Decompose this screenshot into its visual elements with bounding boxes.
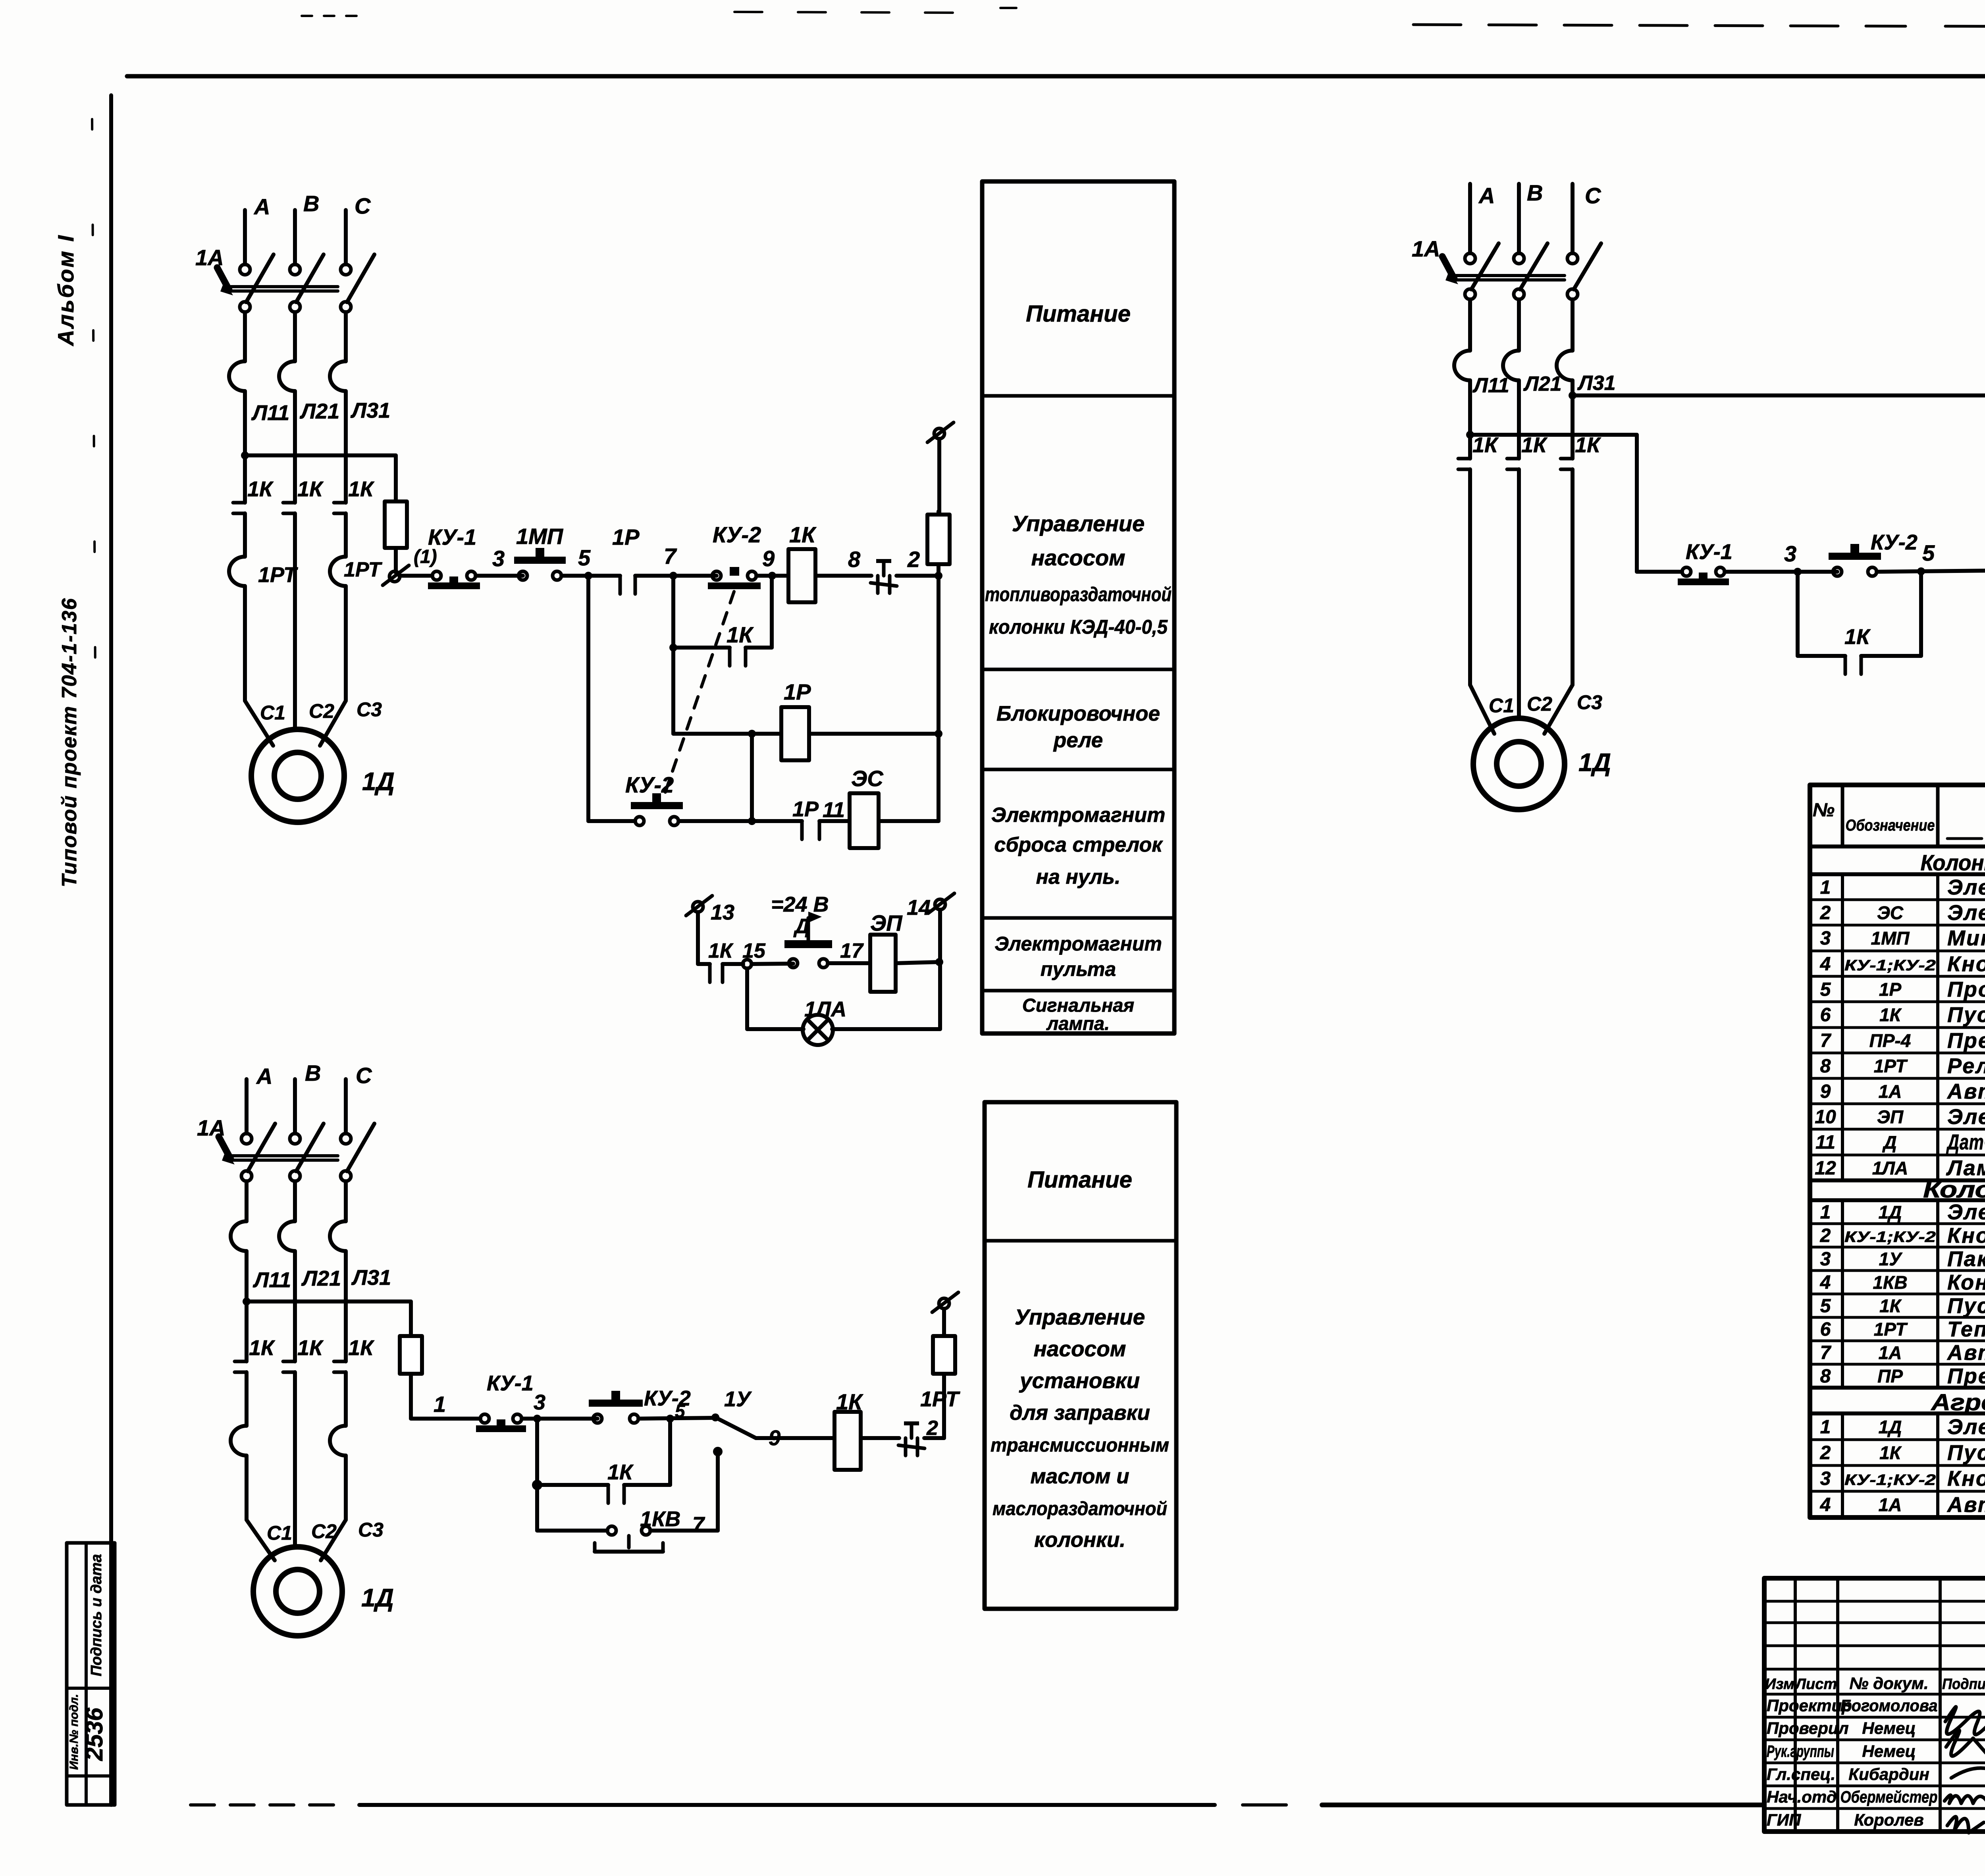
svg-text:Л21: Л21 (301, 1267, 341, 1290)
svg-text:1Р: 1Р (1879, 979, 1902, 1000)
svg-text:1А: 1А (197, 1115, 225, 1140)
svg-text:1КВ: 1КВ (1873, 1272, 1907, 1293)
svg-text:Электромагнит: Электромагнит (994, 933, 1162, 955)
svg-text:реле: реле (1053, 729, 1103, 752)
svg-text:Лампа коммутатор КМ-3: Лампа коммутатор КМ-3 (1946, 1156, 1985, 1180)
svg-text:1К: 1К (1879, 1296, 1902, 1316)
svg-text:Л21: Л21 (299, 399, 339, 423)
svg-text:Электромагнит: Электромагнит (991, 804, 1166, 827)
svg-text:КУ-1;КУ-2: КУ-1;КУ-2 (1844, 957, 1936, 974)
svg-text:1А: 1А (195, 245, 224, 270)
svg-text:1РТ: 1РТ (1874, 1319, 1908, 1340)
svg-text:ПР: ПР (1877, 1366, 1903, 1386)
svg-text:3: 3 (1820, 1249, 1831, 1270)
svg-text:КУ-1: КУ-1 (1686, 540, 1733, 564)
svg-text:Автоматический выключатель: Автоматический выключатель (1946, 1080, 1985, 1103)
svg-text:Обермейстер: Обермейстер (1840, 1787, 1938, 1806)
svg-text:ПР-4: ПР-4 (1869, 1030, 1911, 1051)
svg-text:Пускатель магнитный.: Пускатель магнитный. (1947, 1441, 1985, 1465)
svg-text:Л31: Л31 (350, 399, 390, 422)
svg-text:1РТ: 1РТ (258, 563, 298, 587)
svg-text:КУ-2: КУ-2 (713, 522, 761, 547)
svg-text:С2: С2 (311, 1520, 337, 1542)
svg-text:1Д: 1Д (362, 767, 395, 796)
svg-text:Пускатель магнитный: Пускатель магнитный (1947, 1294, 1985, 1318)
svg-text:Д: Д (1882, 1132, 1896, 1153)
svg-text:1К: 1К (348, 1336, 375, 1360)
svg-text:лампа.: лампа. (1046, 1013, 1110, 1034)
svg-text:4: 4 (1820, 1272, 1831, 1293)
svg-text:Л11: Л11 (251, 401, 289, 425)
svg-text:13: 13 (711, 900, 734, 924)
svg-text:С1: С1 (267, 1522, 292, 1544)
svg-text:пульта: пульта (1041, 958, 1116, 980)
svg-text:Электромагнит пульта ШУ-24/8: Электромагнит пульта ШУ-24/8 (1947, 1105, 1985, 1129)
svg-text:Альбом I: Альбом I (53, 234, 78, 347)
svg-text:маслораздаточной: маслораздаточной (992, 1498, 1167, 1519)
svg-text:Д: Д (793, 915, 810, 938)
svg-text:колонки.: колонки. (1034, 1528, 1125, 1552)
svg-text:Тепловое реле ТРН-20: Тепловое реле ТРН-20 (1947, 1317, 1985, 1341)
svg-text:1: 1 (1820, 877, 1831, 898)
svg-text:14: 14 (907, 896, 931, 920)
svg-text:5: 5 (578, 545, 591, 570)
svg-text:Кнопка управления: Кнопка управления (1947, 952, 1985, 976)
svg-text:1К: 1К (249, 1336, 276, 1360)
svg-text:ГИП: ГИП (1767, 1810, 1801, 1829)
svg-text:Колонка топливораздаточная КЭД: Колонка топливораздаточная КЭД-40-0,5 (1921, 850, 1985, 875)
svg-text:8: 8 (1820, 1366, 1831, 1387)
svg-text:С1: С1 (260, 702, 285, 724)
svg-text:В: В (303, 191, 319, 216)
svg-text:трансмиссионным: трансмиссионным (991, 1435, 1169, 1456)
svg-text:5: 5 (675, 1401, 686, 1421)
svg-text:1К: 1К (607, 1460, 634, 1484)
svg-text:Микропереключатель МЦ-3: Микропереключатель МЦ-3 (1947, 926, 1985, 950)
svg-text:2536: 2536 (81, 1708, 108, 1761)
svg-text:1К: 1К (1844, 625, 1871, 649)
svg-text:10: 10 (1815, 1107, 1836, 1128)
svg-text:Л31: Л31 (1577, 372, 1616, 395)
svg-text:Богомолова: Богомолова (1840, 1696, 1938, 1715)
svg-text:КУ-1;КУ-2: КУ-1;КУ-2 (1844, 1472, 1936, 1488)
svg-text:1К: 1К (789, 522, 817, 547)
svg-text:9: 9 (762, 546, 775, 571)
svg-text:Питание: Питание (1026, 301, 1131, 327)
svg-text:Изм: Изм (1765, 1676, 1794, 1693)
svg-text:С3: С3 (1577, 691, 1602, 713)
svg-text:колонки КЭД-40-0,5: колонки КЭД-40-0,5 (989, 616, 1168, 638)
svg-text:Датчикимпульсов микропереключа: Датчикимпульсов микропереключателя МП-1 (1946, 1130, 1985, 1154)
svg-text:В: В (305, 1060, 321, 1085)
svg-text:Немец: Немец (1862, 1719, 1916, 1737)
svg-text:1У: 1У (1879, 1249, 1903, 1269)
svg-text:1Р: 1Р (792, 797, 819, 821)
svg-text:1: 1 (434, 1392, 446, 1417)
svg-text:1К: 1К (1879, 1005, 1902, 1025)
svg-text:В: В (1527, 180, 1543, 205)
svg-text:Л11: Л11 (252, 1268, 291, 1292)
svg-text:7: 7 (692, 1513, 705, 1537)
svg-text:Гл.спец.: Гл.спец. (1767, 1765, 1835, 1783)
svg-text:1А: 1А (1879, 1081, 1902, 1102)
svg-text:Питание: Питание (1027, 1167, 1132, 1193)
svg-text:11: 11 (823, 798, 845, 822)
svg-text:С: С (1585, 183, 1601, 208)
svg-text:ЭП: ЭП (1877, 1107, 1904, 1127)
svg-text:1А: 1А (1879, 1342, 1902, 1363)
svg-text:Л21: Л21 (1523, 372, 1562, 395)
svg-text:1Д: 1Д (1879, 1417, 1902, 1437)
svg-text:Предохранитель: Предохранитель (1947, 1029, 1985, 1053)
svg-text:1ЛА: 1ЛА (804, 997, 846, 1021)
svg-text:1ЛА: 1ЛА (1872, 1158, 1908, 1178)
svg-text:Предохранитель.: Предохранитель. (1947, 1364, 1985, 1388)
svg-text:№: № (1813, 800, 1835, 821)
svg-text:А: А (256, 1064, 272, 1089)
svg-text:С2: С2 (309, 700, 334, 722)
svg-text:насосом: насосом (1031, 545, 1125, 570)
svg-text:4: 4 (1820, 954, 1831, 975)
svg-text:Подпись и дата: Подпись и дата (88, 1554, 105, 1676)
svg-text:насосом: насосом (1034, 1336, 1126, 1361)
svg-text:2: 2 (1820, 902, 1831, 924)
svg-text:Кнопочный пост управления: Кнопочный пост управления (1947, 1467, 1985, 1490)
svg-text:маслом и: маслом и (1030, 1465, 1129, 1488)
svg-text:5: 5 (1820, 979, 1831, 1000)
svg-text:топливораздаточной: топливораздаточной (985, 583, 1172, 605)
svg-text:1РТ: 1РТ (1874, 1056, 1908, 1076)
svg-text:Промежуточное реле ПЭ-1: Промежуточное реле ПЭ-1 (1947, 978, 1985, 1001)
svg-text:5: 5 (1820, 1296, 1831, 1317)
svg-text:Рук.группы: Рук.группы (1767, 1742, 1834, 1760)
svg-text:С3: С3 (357, 698, 382, 721)
svg-text:1РТ: 1РТ (920, 1387, 960, 1411)
svg-text:№ докум.: № докум. (1849, 1674, 1928, 1693)
svg-text:Кибардин: Кибардин (1848, 1765, 1929, 1783)
svg-text:1К: 1К (297, 477, 324, 501)
svg-text:Немец: Немец (1862, 1742, 1916, 1760)
svg-text:9: 9 (1820, 1081, 1831, 1102)
svg-text:1: 1 (1820, 1202, 1831, 1223)
svg-text:Агрегат приёмно-раздаточный: Агрегат приёмно-раздаточный (1930, 1390, 1985, 1415)
svg-text:7: 7 (1820, 1030, 1832, 1051)
svg-text:Пускатель ПМЕ-222-Т: Пускатель ПМЕ-222-Т (1947, 1003, 1985, 1027)
svg-text:1МП: 1МП (1871, 928, 1910, 949)
svg-text:11: 11 (1815, 1132, 1835, 1153)
svg-text:1У: 1У (724, 1387, 752, 1411)
svg-text:установки: установки (1019, 1368, 1140, 1393)
svg-text:С1: С1 (1489, 694, 1514, 717)
svg-text:1Д: 1Д (1879, 1202, 1902, 1222)
svg-text:1К: 1К (297, 1336, 324, 1360)
svg-text:на нуль.: на нуль. (1036, 866, 1121, 889)
svg-text:ЭС: ЭС (1877, 902, 1904, 923)
svg-text:Типовой проект 704-1-136: Типовой проект 704-1-136 (58, 598, 81, 887)
svg-text:17: 17 (840, 939, 864, 962)
svg-text:Управление: Управление (1012, 511, 1145, 536)
svg-text:1Р: 1Р (612, 524, 640, 549)
svg-text:сброса стрелок: сброса стрелок (994, 833, 1163, 856)
svg-text:Конечный выключатель: Конечный выключатель (1947, 1271, 1985, 1294)
svg-text:Проектир: Проектир (1767, 1696, 1852, 1715)
svg-text:7: 7 (664, 544, 677, 569)
svg-text:1МП: 1МП (516, 524, 564, 549)
svg-text:Электродвигатель ВАО-11-4: Электродвигатель ВАО-11-4 (1947, 875, 1985, 899)
svg-text:Автоматический выключатель.: Автоматический выключатель. (1946, 1493, 1985, 1517)
svg-text:3: 3 (534, 1390, 545, 1414)
svg-text:2: 2 (1820, 1225, 1831, 1246)
svg-text:7: 7 (1820, 1342, 1832, 1363)
svg-text:1К: 1К (348, 477, 375, 501)
svg-text:6: 6 (1820, 1005, 1831, 1026)
svg-text:5: 5 (1922, 540, 1935, 565)
svg-text:Кнопочный пост управления: Кнопочный пост управления (1947, 1224, 1985, 1247)
svg-text:Управление: Управление (1015, 1305, 1145, 1329)
svg-text:Королев: Королев (1854, 1810, 1924, 1829)
svg-text:КУ-1: КУ-1 (428, 524, 476, 549)
svg-text:1К: 1К (247, 477, 274, 501)
svg-text:А: А (1478, 183, 1495, 208)
svg-text:Пакетный переключатель: Пакетный переключатель (1947, 1247, 1985, 1271)
svg-text:1А: 1А (1412, 236, 1440, 261)
svg-text:Инв.№ подл.: Инв.№ подл. (67, 1694, 81, 1770)
svg-text:1К: 1К (1521, 433, 1548, 457)
svg-text:для заправки: для заправки (1010, 1401, 1150, 1425)
svg-text:8: 8 (1820, 1056, 1831, 1077)
svg-text:КУ-1;КУ-2: КУ-1;КУ-2 (1844, 1229, 1936, 1246)
svg-text:1К: 1К (836, 1389, 863, 1414)
svg-text:Подпись: Подпись (1942, 1676, 1985, 1693)
svg-text:Блокировочное: Блокировочное (996, 702, 1160, 725)
svg-text:6: 6 (1820, 1319, 1831, 1340)
svg-text:Обозначение: Обозначение (1846, 817, 1935, 834)
svg-text:3: 3 (1784, 541, 1796, 566)
svg-text:2: 2 (926, 1417, 938, 1440)
svg-text:=24 В: =24 В (771, 893, 829, 916)
svg-text:1: 1 (1820, 1417, 1831, 1438)
svg-text:1Д: 1Д (1578, 748, 1611, 777)
svg-text:1К: 1К (1879, 1442, 1902, 1463)
svg-text:Колонка маслораздаточная: Колонка маслораздаточная (1923, 1177, 1985, 1203)
svg-text:1К: 1К (727, 622, 754, 647)
svg-text:Электродвигатель АО2-21-4: Электродвигатель АО2-21-4 (1947, 1200, 1985, 1224)
svg-text:1Д: 1Д (361, 1583, 394, 1612)
svg-text:С: С (356, 1063, 372, 1088)
svg-text:1РТ: 1РТ (344, 558, 383, 581)
svg-text:Электродвигатель ВАО-42-2: Электродвигатель ВАО-42-2 (1947, 1415, 1985, 1439)
svg-text:Нач.отд: Нач.отд (1767, 1787, 1837, 1806)
svg-text:4: 4 (1820, 1494, 1831, 1515)
svg-text:1Р: 1Р (784, 679, 811, 704)
svg-text:ЭС: ЭС (851, 766, 884, 791)
svg-text:1А: 1А (1879, 1494, 1902, 1515)
svg-text:Автоматический выключатель: Автоматический выключатель (1946, 1341, 1985, 1365)
svg-text:А: А (253, 194, 270, 219)
svg-text:3: 3 (492, 546, 505, 571)
svg-text:12: 12 (1815, 1158, 1836, 1179)
svg-text:2: 2 (907, 547, 920, 572)
svg-text:С: С (355, 193, 371, 218)
svg-text:Лист: Лист (1794, 1676, 1837, 1693)
svg-text:3: 3 (1820, 1468, 1831, 1489)
svg-text:С2: С2 (1527, 693, 1552, 715)
svg-text:КУ-1: КУ-1 (487, 1371, 534, 1395)
svg-text:1КВ: 1КВ (640, 1507, 680, 1531)
svg-text:ЭП: ЭП (870, 910, 903, 935)
svg-text:Электромагнит сброса ЭС-1-5102: Электромагнит сброса ЭС-1-5102 (1947, 901, 1985, 925)
svg-text:3: 3 (1820, 928, 1831, 949)
svg-text:Л11: Л11 (1472, 374, 1509, 397)
svg-text:КУ-2: КУ-2 (1871, 530, 1918, 554)
svg-text:8: 8 (848, 547, 861, 572)
svg-text:Реле тепловое ТРН-20: Реле тепловое ТРН-20 (1947, 1054, 1985, 1078)
svg-text:1К: 1К (1575, 433, 1601, 457)
svg-text:1К: 1К (1472, 433, 1499, 457)
svg-text:С3: С3 (358, 1519, 384, 1541)
svg-text:1К: 1К (708, 939, 734, 962)
svg-text:Проверил: Проверил (1767, 1719, 1849, 1737)
svg-text:2: 2 (1820, 1442, 1831, 1463)
svg-text:Л31: Л31 (351, 1266, 391, 1290)
